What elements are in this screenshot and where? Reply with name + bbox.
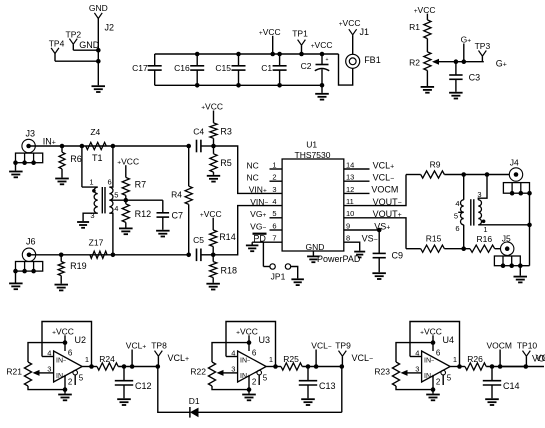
svg-text:J3: J3 bbox=[26, 128, 36, 138]
svg-text:14: 14 bbox=[346, 160, 354, 169]
svg-text:IN−: IN− bbox=[240, 357, 250, 364]
svg-text:3: 3 bbox=[415, 364, 419, 373]
svg-text:1: 1 bbox=[89, 178, 93, 187]
svg-text:13: 13 bbox=[346, 173, 354, 182]
svg-text:4: 4 bbox=[114, 204, 118, 213]
svg-text:R12: R12 bbox=[135, 209, 152, 219]
svg-text:R21: R21 bbox=[6, 367, 22, 377]
svg-text:+VCC: +VCC bbox=[420, 327, 442, 337]
svg-text:VCL+: VCL+ bbox=[168, 353, 190, 363]
svg-text:1: 1 bbox=[269, 355, 273, 364]
svg-text:TP2: TP2 bbox=[66, 29, 82, 39]
svg-text:TP10: TP10 bbox=[517, 340, 538, 350]
svg-text:U1: U1 bbox=[306, 140, 317, 150]
svg-text:+VCC: +VCC bbox=[201, 102, 223, 112]
svg-text:THS7530: THS7530 bbox=[295, 150, 331, 160]
svg-text:6: 6 bbox=[455, 224, 459, 233]
svg-text:C9: C9 bbox=[392, 250, 404, 260]
svg-text:NC: NC bbox=[247, 161, 259, 171]
svg-text:+VCC: +VCC bbox=[311, 40, 333, 50]
svg-text:R18: R18 bbox=[221, 266, 238, 276]
svg-text:R16: R16 bbox=[477, 234, 493, 244]
svg-text:+VCC: +VCC bbox=[259, 27, 281, 37]
svg-text:U4: U4 bbox=[443, 335, 455, 345]
svg-text:C15: C15 bbox=[215, 63, 231, 73]
svg-text:J6: J6 bbox=[26, 237, 36, 247]
svg-text:U3: U3 bbox=[259, 335, 271, 345]
svg-text:C7: C7 bbox=[172, 210, 184, 220]
svg-text:+: + bbox=[326, 57, 329, 63]
svg-text:R24: R24 bbox=[99, 354, 115, 364]
svg-text:NC: NC bbox=[247, 173, 259, 183]
svg-text:G+: G+ bbox=[461, 35, 472, 45]
svg-text:4: 4 bbox=[415, 348, 419, 357]
svg-text:IN−: IN− bbox=[424, 357, 434, 364]
svg-text:C5: C5 bbox=[193, 235, 204, 245]
svg-text:4: 4 bbox=[272, 197, 276, 206]
svg-text:TP8: TP8 bbox=[151, 340, 167, 350]
svg-text:4: 4 bbox=[231, 348, 235, 357]
svg-text:Z17: Z17 bbox=[89, 238, 104, 248]
svg-text:C4: C4 bbox=[193, 126, 204, 136]
svg-text:5: 5 bbox=[114, 190, 118, 199]
svg-text:R5: R5 bbox=[220, 158, 232, 168]
svg-text:R9: R9 bbox=[430, 159, 441, 169]
svg-text:7: 7 bbox=[272, 234, 276, 243]
svg-text:9: 9 bbox=[346, 221, 350, 230]
svg-text:VCL+: VCL+ bbox=[373, 160, 395, 170]
svg-text:R25: R25 bbox=[283, 354, 299, 364]
svg-text:3: 3 bbox=[477, 190, 481, 199]
svg-text:C3: C3 bbox=[469, 73, 481, 83]
svg-text:VG+: VG+ bbox=[250, 209, 266, 219]
svg-text:5: 5 bbox=[263, 374, 268, 383]
svg-text:6: 6 bbox=[436, 348, 441, 357]
svg-text:6: 6 bbox=[252, 348, 257, 357]
svg-text:VOCM: VOCM bbox=[486, 340, 512, 350]
svg-text:2: 2 bbox=[436, 378, 441, 387]
svg-text:C1: C1 bbox=[261, 63, 272, 73]
svg-text:TP9: TP9 bbox=[335, 340, 351, 350]
svg-text:VIN+: VIN+ bbox=[249, 185, 267, 195]
svg-text:4: 4 bbox=[47, 348, 51, 357]
svg-text:R22: R22 bbox=[190, 367, 206, 377]
svg-text:5: 5 bbox=[272, 209, 276, 218]
svg-text:C13: C13 bbox=[319, 381, 336, 391]
svg-text:+VCC: +VCC bbox=[339, 18, 361, 28]
svg-text:C16: C16 bbox=[174, 63, 190, 73]
svg-text:C14: C14 bbox=[503, 381, 520, 391]
svg-text:+VCC: +VCC bbox=[117, 156, 139, 166]
svg-text:R19: R19 bbox=[70, 261, 87, 271]
svg-text:R23: R23 bbox=[374, 367, 390, 377]
svg-text:VCL−: VCL− bbox=[352, 353, 374, 363]
svg-text:G+: G+ bbox=[496, 58, 507, 68]
svg-text:6: 6 bbox=[108, 178, 112, 187]
svg-text:R1: R1 bbox=[409, 22, 420, 32]
svg-text:FB1: FB1 bbox=[364, 55, 381, 65]
svg-text:J2: J2 bbox=[105, 22, 115, 32]
svg-text:GND: GND bbox=[79, 40, 100, 50]
svg-text:R26: R26 bbox=[467, 354, 483, 364]
svg-text:3: 3 bbox=[231, 364, 235, 373]
svg-text:11: 11 bbox=[346, 197, 354, 206]
svg-text:VS−: VS− bbox=[362, 234, 378, 244]
svg-text:J1: J1 bbox=[360, 27, 370, 37]
svg-text:VOCM: VOCM bbox=[371, 185, 398, 195]
svg-text:VCL−: VCL− bbox=[373, 173, 395, 183]
svg-text:6: 6 bbox=[272, 221, 276, 230]
svg-text:3: 3 bbox=[90, 211, 94, 220]
svg-text:8: 8 bbox=[346, 234, 350, 243]
svg-text:VG−: VG− bbox=[250, 221, 266, 231]
svg-text:+VCC: +VCC bbox=[200, 209, 222, 219]
svg-text:R7: R7 bbox=[135, 180, 147, 190]
svg-text:+VCC: +VCC bbox=[414, 5, 436, 15]
svg-text:J5: J5 bbox=[502, 233, 511, 243]
svg-text:2: 2 bbox=[252, 378, 257, 387]
svg-text:TP3: TP3 bbox=[475, 41, 491, 51]
svg-text:VOCM: VOCM bbox=[532, 354, 545, 364]
svg-text:+VCC: +VCC bbox=[52, 327, 74, 337]
svg-text:R15: R15 bbox=[426, 233, 442, 243]
svg-text:D1: D1 bbox=[189, 396, 200, 406]
svg-text:C12: C12 bbox=[135, 381, 152, 391]
svg-text:Z4: Z4 bbox=[90, 127, 100, 137]
svg-text:1: 1 bbox=[272, 160, 276, 169]
svg-text:2: 2 bbox=[68, 378, 73, 387]
svg-text:2: 2 bbox=[272, 173, 276, 182]
svg-text:C2: C2 bbox=[301, 61, 312, 71]
svg-text:R6: R6 bbox=[70, 154, 82, 164]
svg-text:3: 3 bbox=[272, 185, 276, 194]
svg-text:C17: C17 bbox=[132, 63, 148, 73]
svg-text:GND: GND bbox=[89, 3, 108, 13]
svg-text:JP1: JP1 bbox=[271, 272, 286, 282]
svg-text:3: 3 bbox=[47, 364, 51, 373]
svg-text:TP4: TP4 bbox=[49, 39, 65, 49]
svg-text:TP1: TP1 bbox=[292, 28, 308, 38]
svg-text:VCL+: VCL+ bbox=[126, 340, 147, 350]
svg-text:5: 5 bbox=[79, 374, 84, 383]
svg-text:+VCC: +VCC bbox=[236, 327, 258, 337]
svg-text:10: 10 bbox=[346, 209, 354, 218]
svg-text:4: 4 bbox=[455, 199, 459, 208]
svg-text:J4: J4 bbox=[510, 157, 519, 167]
svg-text:6: 6 bbox=[68, 348, 73, 357]
svg-text:IN−: IN− bbox=[56, 357, 66, 364]
svg-text:1: 1 bbox=[453, 355, 457, 364]
svg-text:IN+: IN+ bbox=[43, 137, 56, 147]
svg-text:R4: R4 bbox=[171, 189, 182, 199]
svg-text:U2: U2 bbox=[75, 335, 87, 345]
svg-text:5: 5 bbox=[447, 374, 452, 383]
svg-text:1: 1 bbox=[483, 225, 487, 234]
svg-text:R2: R2 bbox=[409, 57, 420, 67]
svg-text:VIN−: VIN− bbox=[250, 197, 268, 207]
svg-text:T1: T1 bbox=[92, 153, 103, 163]
svg-text:PowerPAD: PowerPAD bbox=[317, 254, 361, 264]
svg-text:5: 5 bbox=[454, 212, 458, 221]
svg-text:R14: R14 bbox=[219, 232, 236, 242]
svg-text:VCL−: VCL− bbox=[311, 340, 332, 350]
svg-text:R3: R3 bbox=[220, 126, 232, 136]
svg-text:12: 12 bbox=[346, 185, 354, 194]
svg-text:1: 1 bbox=[85, 355, 89, 364]
svg-text:GND: GND bbox=[306, 242, 325, 252]
